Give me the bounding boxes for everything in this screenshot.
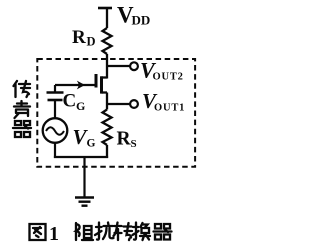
wire source down xyxy=(106,93,108,110)
capacitor CG top connector xyxy=(54,85,56,93)
transistor Q1 source step xyxy=(102,91,108,93)
label VOUT2 xyxy=(140,58,184,83)
transistor Q1 drain step xyxy=(102,76,108,78)
bottom rail wire xyxy=(54,156,108,158)
svg-text:D: D xyxy=(87,35,96,49)
transistor Q1 gate bar xyxy=(95,74,98,88)
svg-text:C: C xyxy=(63,91,77,112)
terminal VOUT1 xyxy=(130,100,138,108)
terminal VOUT2 xyxy=(130,62,138,70)
抗 xyxy=(95,223,114,240)
resistor RD xyxy=(103,28,112,54)
label CG xyxy=(63,91,86,114)
label 传声器 (microphone) vertical xyxy=(13,81,31,137)
dashed box microphone enclosure xyxy=(37,59,195,167)
阻 xyxy=(76,223,93,240)
transistor Q1 channel bar xyxy=(100,76,103,93)
wire gate lead xyxy=(55,84,95,86)
ground xyxy=(75,198,94,206)
图 xyxy=(30,224,46,240)
arrow on gate lead xyxy=(77,81,85,90)
svg-text:OUT2: OUT2 xyxy=(153,72,184,83)
label VG xyxy=(73,125,96,150)
svg-text:OUT1: OUT1 xyxy=(154,103,185,114)
node VOUT2 wire tap xyxy=(107,65,131,67)
声 xyxy=(14,101,30,118)
capacitor CG plates xyxy=(47,93,64,101)
传 xyxy=(14,81,31,97)
转 xyxy=(114,223,133,241)
wire RD to drain xyxy=(106,54,108,79)
resistor RS xyxy=(103,110,112,146)
wire CG to VG xyxy=(54,100,56,119)
器 xyxy=(13,121,31,137)
器 xyxy=(154,224,172,240)
label RD xyxy=(72,27,96,49)
caption 图 1 阻抗转换器 xyxy=(30,224,46,240)
label VOUT1 xyxy=(142,89,185,114)
power rail VDD bar xyxy=(98,7,112,10)
svg-text:S: S xyxy=(131,138,137,150)
wire VDD to RD xyxy=(106,8,108,28)
wire rail to ground xyxy=(83,157,85,197)
svg-text:G: G xyxy=(87,138,96,150)
sine wave inside VG xyxy=(46,127,64,135)
svg-text:R: R xyxy=(72,27,86,48)
svg-text:1: 1 xyxy=(49,223,59,245)
node VOUT1 wire tap xyxy=(107,103,130,105)
label RS xyxy=(117,129,137,151)
wire VG to bottom rail xyxy=(54,143,56,158)
svg-text:DD: DD xyxy=(132,13,151,28)
source VG circle xyxy=(43,118,68,143)
wire RS to bottom rail xyxy=(106,145,108,158)
svg-text:R: R xyxy=(117,129,132,150)
label VDD xyxy=(117,3,150,28)
svg-text:G: G xyxy=(76,99,85,113)
换 xyxy=(133,223,151,241)
